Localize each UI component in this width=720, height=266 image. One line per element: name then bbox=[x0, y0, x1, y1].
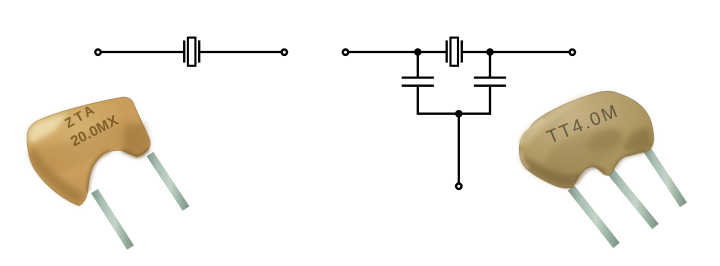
body (tan ceramic D-shaped slab) bbox=[519, 91, 653, 188]
left schematic: two-terminal ceramic resonator symbol bbox=[95, 38, 287, 66]
wire (crystal X2 right plate to node B) bbox=[463, 51, 490, 53]
capacitor C1 top plate bbox=[402, 76, 434, 78]
crystal X2 right plate bbox=[461, 40, 463, 62]
crystal X2 body rectangle bbox=[451, 38, 459, 66]
wire (node B down to capacitor C2) bbox=[489, 52, 491, 77]
capacitor C2 top plate bbox=[474, 76, 506, 78]
terminal pin 1 (left, open circle) bbox=[95, 50, 100, 55]
lead 2 (middle wire lead) bbox=[607, 169, 659, 229]
wire (left terminal to crystal X1 left plate) bbox=[101, 51, 183, 53]
left resonator photo (2-pin, ZTA 20.0MX) bbox=[27, 97, 190, 250]
lead 1 (left wire lead) bbox=[568, 185, 620, 248]
mid-face darker band bbox=[30, 118, 140, 178]
capacitor C2 bottom plate bbox=[474, 85, 506, 87]
right resonator photo (3-pin, TT4.0M) bbox=[519, 91, 687, 248]
arch right lobe dark rim bbox=[122, 149, 149, 157]
crystal X1 left plate bbox=[183, 40, 185, 62]
lead 1 (left wire lead) bbox=[91, 189, 134, 250]
wire (left terminal to node A) bbox=[349, 51, 418, 53]
crystal X1 right plate bbox=[198, 40, 200, 62]
terminal pin 2 (bottom ground, open circle) bbox=[456, 184, 461, 189]
wire (crystal X1 right plate to right terminal) bbox=[200, 51, 281, 53]
crystal X2 left plate bbox=[446, 40, 448, 62]
wire (node A to crystal X2 left plate) bbox=[418, 51, 446, 53]
mottled shading patches bbox=[540, 120, 631, 181]
body bottom-left edge shading bbox=[30, 146, 86, 205]
right schematic: three-terminal resonator = crystal with built-in load capacitors bbox=[343, 38, 575, 189]
left corner edge highlight bbox=[520, 120, 543, 145]
lead 3 (right wire lead) bbox=[643, 147, 687, 208]
capacitor C1 bottom plate bbox=[402, 85, 434, 87]
arch inner dark rim bbox=[88, 152, 110, 192]
bottom rail junction dot bbox=[456, 111, 461, 116]
body top highlight bbox=[523, 94, 593, 149]
wire (capacitor C2 to bottom rail) bbox=[459, 87, 490, 114]
wire (capacitor C1 to bottom rail) bbox=[418, 87, 459, 114]
node A junction dot bbox=[415, 49, 420, 54]
lead 2 (right wire lead) bbox=[147, 152, 190, 211]
wire (node B to right terminal) bbox=[490, 51, 569, 53]
wire (node A down to capacitor C1) bbox=[417, 52, 419, 77]
body (tan ceramic slab with arch notch) bbox=[27, 97, 150, 206]
scallop edge shadows bbox=[575, 167, 605, 184]
body right-bottom shading bbox=[622, 127, 652, 151]
crystal X1 body rectangle bbox=[188, 38, 196, 66]
body top-left highlight bbox=[28, 113, 69, 145]
wire (bottom rail node down to ground terminal) bbox=[458, 114, 460, 183]
terminal pin 1 (left, open circle) bbox=[343, 50, 348, 55]
terminal pin 2 (right, open circle) bbox=[282, 50, 287, 55]
body bottom shadow band bbox=[521, 157, 584, 187]
terminal pin 3 (right, open circle) bbox=[570, 50, 575, 55]
node B junction dot bbox=[487, 49, 492, 54]
body bottom-right dark lobe shading bbox=[122, 122, 150, 157]
